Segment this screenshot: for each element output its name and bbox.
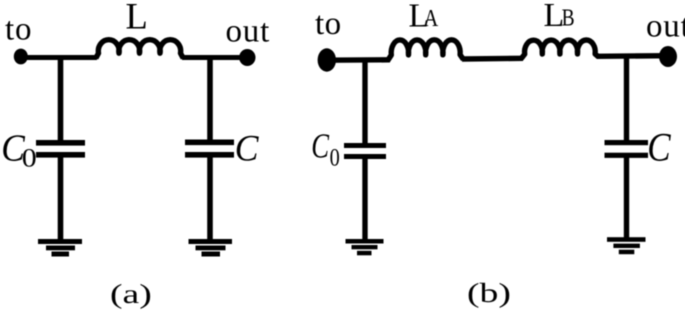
svg-text:out: out	[226, 14, 271, 50]
svg-text:0: 0	[22, 144, 37, 173]
svg-text:B: B	[562, 5, 575, 32]
svg-text:out: out	[646, 9, 685, 45]
svg-text:(b): (b)	[467, 278, 511, 308]
svg-text:to: to	[5, 12, 32, 48]
svg-text:A: A	[424, 5, 439, 32]
svg-text:C: C	[647, 127, 671, 171]
svg-text:L: L	[126, 0, 148, 36]
svg-text:0: 0	[330, 143, 340, 172]
svg-text:C: C	[311, 126, 329, 165]
svg-text:C: C	[235, 128, 260, 169]
svg-text:(a): (a)	[110, 280, 152, 310]
svg-text:to: to	[315, 6, 342, 42]
